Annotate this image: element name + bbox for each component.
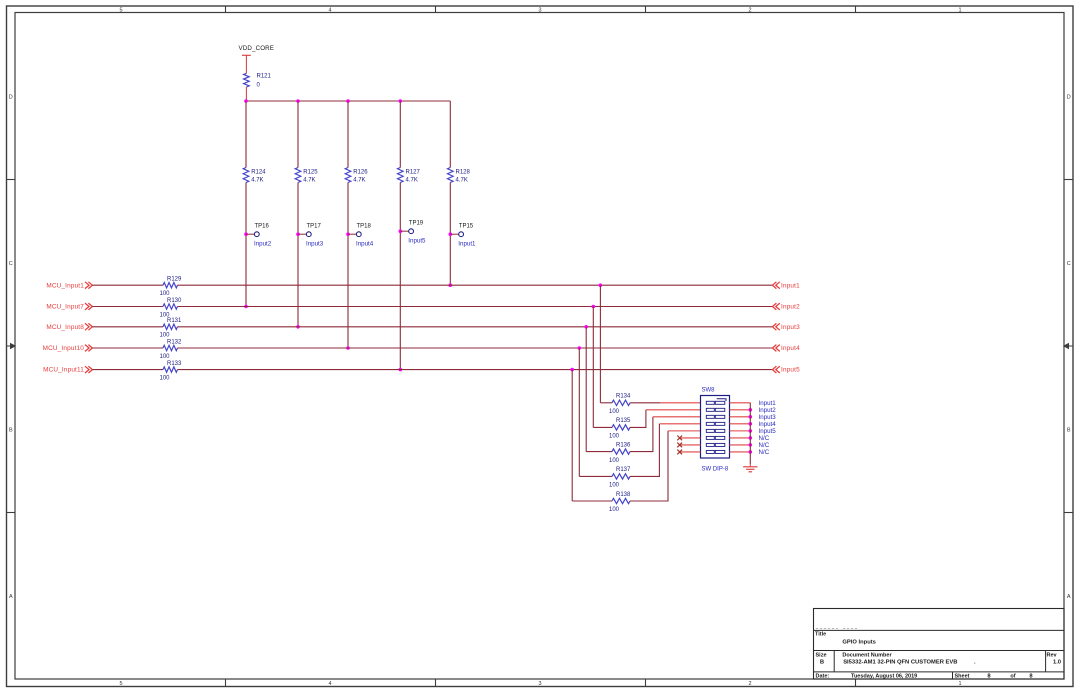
wire N/C stub pin 8 <box>680 451 701 453</box>
svg-text:VDD_CORE: VDD_CORE <box>239 45 275 52</box>
svg-text:Input3: Input3 <box>759 414 777 421</box>
wire pull-up bus <box>246 100 450 102</box>
port MCU_Input10 <box>43 345 93 353</box>
svg-text:R127: R127 <box>406 170 421 176</box>
junction row tap Input2 <box>592 305 596 309</box>
port Input1 <box>772 282 800 290</box>
net label Input1 <box>759 400 777 407</box>
svg-text:4.7K: 4.7K <box>406 178 418 184</box>
svg-text:A: A <box>9 594 13 600</box>
net label Input3 <box>759 414 777 421</box>
net label N/C <box>759 449 770 456</box>
svg-text:SI5332-AM1 32-PIN QFN CUSTOMER: SI5332-AM1 32-PIN QFN CUSTOMER EVB <box>843 660 957 666</box>
no-connect X pin 8 <box>677 450 682 455</box>
wire column 4 lower <box>399 183 401 370</box>
svg-text:TP19: TP19 <box>409 220 424 226</box>
svg-text:1: 1 <box>958 681 961 687</box>
svg-text:Document Number: Document Number <box>842 653 892 659</box>
wire tap Input1 down <box>599 285 601 403</box>
junction bus/column 2 <box>296 99 300 103</box>
switch SW8 SW DIP-8 <box>701 387 730 472</box>
svg-text:R121: R121 <box>257 74 272 80</box>
wire row net to port Input5 <box>178 369 773 371</box>
svg-text:Rev: Rev <box>1047 652 1058 658</box>
svg-text:4.7K: 4.7K <box>303 178 315 184</box>
svg-text:Input2: Input2 <box>759 407 777 414</box>
svg-text:N/C: N/C <box>759 449 770 456</box>
resistor R127 4.7K <box>398 168 421 184</box>
test point TP18 <box>346 223 374 247</box>
svg-text:Input4: Input4 <box>356 241 374 248</box>
svg-text:2: 2 <box>748 681 751 687</box>
svg-text:Input1: Input1 <box>781 282 800 289</box>
svg-text:Input5: Input5 <box>408 238 426 245</box>
junction row tap Input4 <box>578 346 582 350</box>
wire tap to R138 <box>572 500 612 502</box>
resistor R132 100 <box>160 339 183 359</box>
svg-text:4.7K: 4.7K <box>353 178 365 184</box>
svg-text:A: A <box>1067 594 1071 600</box>
svg-text:Title: Title <box>815 631 826 637</box>
wire SW8 pin 16 to ground bus <box>730 451 751 453</box>
svg-text:C: C <box>9 261 13 267</box>
svg-text:D: D <box>1067 94 1071 100</box>
wire row net to port Input4 <box>178 347 773 349</box>
resistor R129 100 <box>160 277 183 297</box>
svg-text:R136: R136 <box>616 442 631 448</box>
svg-text:2: 2 <box>748 7 751 13</box>
svg-text:Input3: Input3 <box>781 324 800 331</box>
resistor R138 100 <box>609 492 631 513</box>
resistor R128 4.7K <box>448 168 471 184</box>
wire column 5 lower <box>449 183 451 286</box>
svg-text:100: 100 <box>160 354 171 360</box>
wire row MCU_Input11 left segment <box>92 369 163 371</box>
svg-text:TP15: TP15 <box>459 223 474 229</box>
junction ground bus pin 16 <box>749 450 753 454</box>
test point TP16 <box>244 223 272 247</box>
svg-text:Sheet: Sheet <box>955 673 970 679</box>
wire column 1 lower <box>245 183 247 307</box>
svg-text:100: 100 <box>609 458 620 464</box>
junction column 5 to net row <box>449 283 453 287</box>
svg-text:Input5: Input5 <box>759 428 777 435</box>
junction ground bus pin 13 <box>749 429 753 433</box>
wire row net to port Input1 <box>178 284 773 286</box>
resistor R134 100 <box>609 394 631 415</box>
svg-text:R135: R135 <box>616 418 631 424</box>
junction row tap Input1 <box>599 283 603 287</box>
resistor R131 100 <box>160 318 183 338</box>
svg-text:100: 100 <box>609 483 620 489</box>
svg-text:N/C: N/C <box>759 442 770 449</box>
wire tap Input2 down <box>592 307 594 428</box>
junction row tap Input5 <box>570 368 574 372</box>
svg-text:SW DIP-8: SW DIP-8 <box>702 466 729 472</box>
wire column 1 upper <box>245 101 247 168</box>
svg-text:4.7K: 4.7K <box>456 178 468 184</box>
wire R138 to SW8 pin 5 <box>630 431 701 501</box>
svg-text:MCU_Input11: MCU_Input11 <box>43 367 84 374</box>
svg-text:R131: R131 <box>167 318 182 324</box>
svg-text:100: 100 <box>160 291 171 297</box>
svg-text:Tuesday, August 06, 2019: Tuesday, August 06, 2019 <box>851 674 917 680</box>
port Input5 <box>772 366 800 374</box>
svg-text:TP17: TP17 <box>307 223 322 229</box>
svg-text:TP18: TP18 <box>357 223 372 229</box>
wire column 3 upper <box>347 101 349 168</box>
port Input3 <box>772 323 800 331</box>
ground <box>743 464 757 472</box>
junction ground bus pin 12 <box>749 422 753 426</box>
svg-text:R134: R134 <box>616 394 631 400</box>
svg-text:R137: R137 <box>616 467 631 473</box>
wire SW8 pin 15 to ground bus <box>730 444 751 446</box>
wire tap to R134 <box>600 402 612 404</box>
wire column 4 upper <box>399 101 401 168</box>
wire SW8 pin 11 to ground bus <box>730 416 751 418</box>
wire R121 to bus <box>245 87 247 101</box>
net label N/C <box>759 442 770 449</box>
svg-text:3: 3 <box>538 7 541 13</box>
wire SW8 pin 10 to ground bus <box>730 409 751 411</box>
port Input4 <box>772 345 800 353</box>
svg-text:Input1: Input1 <box>458 241 476 248</box>
title block <box>814 609 1065 680</box>
svg-text:R124: R124 <box>251 170 266 176</box>
wire R137 to SW8 pin 4 <box>630 424 701 477</box>
svg-text:of: of <box>1010 673 1015 679</box>
wire row MCU_Input7 left segment <box>92 306 163 308</box>
junction ground bus pin 11 <box>749 415 753 419</box>
svg-text:Size: Size <box>816 652 827 658</box>
svg-text:5: 5 <box>119 681 122 687</box>
junction bus/column 1 <box>244 99 248 103</box>
svg-text:MCU_Input7: MCU_Input7 <box>46 304 84 311</box>
wire tap Input5 down <box>571 370 573 501</box>
svg-text:Date:: Date: <box>816 673 830 679</box>
wire SW8 pin 9 to ground bus <box>730 402 751 404</box>
net label Input2 <box>759 407 777 414</box>
wire row MCU_Input1 left segment <box>92 284 163 286</box>
wire ground bus vertical <box>749 403 751 465</box>
svg-text:Input5: Input5 <box>781 367 800 374</box>
svg-text:B: B <box>820 659 824 665</box>
svg-text:3: 3 <box>538 681 541 687</box>
port MCU_Input7 <box>46 303 92 311</box>
svg-text:100: 100 <box>609 409 620 415</box>
resistor R137 100 <box>609 467 631 488</box>
wire column 2 upper <box>297 101 299 168</box>
wire tap to R136 <box>586 451 612 453</box>
svg-text:R125: R125 <box>303 170 318 176</box>
svg-text:Input2: Input2 <box>254 241 272 248</box>
power symbol VDD_CORE <box>239 45 275 55</box>
wire VDD_CORE to R121 <box>245 55 247 73</box>
svg-text:Input1: Input1 <box>759 400 777 407</box>
svg-text:GPIO Inputs: GPIO Inputs <box>842 639 876 645</box>
junction column 3 to net row <box>346 346 350 350</box>
svg-text:C: C <box>1067 261 1071 267</box>
wire tap Input4 down <box>578 348 580 476</box>
wire R134 to SW8 pin 1 <box>630 402 701 404</box>
svg-text:R132: R132 <box>167 339 182 345</box>
junction bus/column 4 <box>399 99 403 103</box>
svg-text:B: B <box>1067 427 1071 433</box>
net label Input4 <box>759 421 777 428</box>
test point TP17 <box>296 223 324 247</box>
resistor R124 4.7K <box>243 168 266 184</box>
svg-text:MCU_Input1: MCU_Input1 <box>46 282 84 289</box>
svg-text:4.7K: 4.7K <box>251 178 263 184</box>
junction bus/column 3 <box>346 99 350 103</box>
port MCU_Input1 <box>46 282 92 290</box>
svg-text:1.0: 1.0 <box>1053 659 1061 665</box>
wire row MCU_Input8 left segment <box>92 326 163 328</box>
resistor R133 100 <box>160 361 183 381</box>
resistor R136 100 <box>609 442 631 463</box>
wire N/C stub pin 6 <box>680 437 701 439</box>
net label Input5 <box>759 428 777 435</box>
no-connect X pin 7 <box>677 443 682 448</box>
resistor R130 100 <box>160 298 183 318</box>
wire row net to port Input3 <box>178 326 773 328</box>
svg-text:4: 4 <box>328 7 331 13</box>
wire column 5 upper <box>449 101 451 168</box>
resistor R125 4.7K <box>295 168 318 184</box>
wire R135 to SW8 pin 2 <box>630 410 701 428</box>
wire column 2 lower <box>297 183 299 327</box>
svg-text:Input4: Input4 <box>781 345 800 352</box>
svg-text:MCU_Input8: MCU_Input8 <box>46 324 84 331</box>
svg-text:B: B <box>9 427 13 433</box>
wire SW8 pin 14 to ground bus <box>730 437 751 439</box>
wire tap Input3 down <box>585 327 587 452</box>
svg-text:5: 5 <box>119 7 122 13</box>
svg-text:R129: R129 <box>167 277 182 283</box>
wire SW8 pin 13 to ground bus <box>730 430 751 432</box>
wire row net to port Input2 <box>178 306 773 308</box>
net label N/C <box>759 435 770 442</box>
junction row tap Input3 <box>584 325 588 329</box>
wire tap to R137 <box>579 475 612 477</box>
wire tap to R135 <box>593 426 612 428</box>
svg-text:TP16: TP16 <box>255 223 270 229</box>
svg-text:4: 4 <box>328 681 331 687</box>
svg-text:R138: R138 <box>616 492 631 498</box>
wire column 3 lower <box>347 183 349 349</box>
svg-text:R130: R130 <box>167 298 182 304</box>
svg-text:Input3: Input3 <box>306 241 324 248</box>
port MCU_Input11 <box>43 366 92 374</box>
svg-text:SW8: SW8 <box>702 387 716 393</box>
svg-text:R128: R128 <box>456 170 471 176</box>
resistor R126 4.7K <box>345 168 368 184</box>
svg-text:Input4: Input4 <box>759 421 777 428</box>
svg-text:100: 100 <box>609 507 620 513</box>
wire row MCU_Input10 left segment <box>92 347 163 349</box>
svg-text:Input2: Input2 <box>781 304 800 311</box>
svg-text:100: 100 <box>609 434 620 440</box>
svg-text:D: D <box>9 94 13 100</box>
test point TP19 <box>399 220 427 244</box>
junction ground bus pin 15 <box>749 443 753 447</box>
wire SW8 pin 12 to ground bus <box>730 423 751 425</box>
resistor R135 100 <box>609 418 631 439</box>
svg-text:R133: R133 <box>167 361 182 367</box>
no-connect X pin 6 <box>677 436 682 441</box>
svg-text:MCU_Input10: MCU_Input10 <box>43 345 85 352</box>
wire N/C stub pin 7 <box>680 444 701 446</box>
junction ground bus pin 10 <box>749 408 753 412</box>
junction column 4 to net row <box>399 368 403 372</box>
svg-text:100: 100 <box>160 333 171 339</box>
svg-text:1: 1 <box>958 7 961 13</box>
svg-text:100: 100 <box>160 375 171 381</box>
junction ground bus pin 14 <box>749 436 753 440</box>
port MCU_Input8 <box>46 323 92 331</box>
svg-text:R126: R126 <box>353 170 368 176</box>
junction column 1 to net row <box>244 305 248 309</box>
resistor R121 0 ohm <box>244 73 272 88</box>
test point TP15 <box>449 223 477 247</box>
junction column 2 to net row <box>296 325 300 329</box>
port Input2 <box>772 303 800 311</box>
svg-text:N/C: N/C <box>759 435 770 442</box>
wire R136 to SW8 pin 3 <box>630 417 701 452</box>
